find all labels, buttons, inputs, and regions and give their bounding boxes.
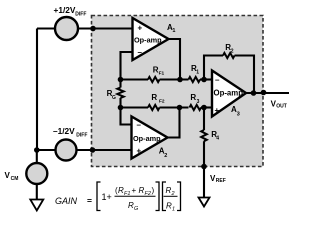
svg-text:G: G	[112, 95, 116, 101]
svg-text:–: –	[137, 121, 142, 130]
svg-text:Op-amp: Op-amp	[214, 89, 244, 98]
svg-text:2: 2	[164, 153, 167, 159]
svg-text:+: +	[137, 147, 142, 156]
svg-text:DIFF: DIFF	[75, 11, 86, 17]
svg-text:–1/2V: –1/2V	[53, 126, 75, 136]
svg-text:3: 3	[197, 99, 200, 105]
svg-text:R: R	[151, 93, 157, 102]
svg-text:+: +	[138, 24, 143, 33]
svg-text:–: –	[215, 76, 220, 85]
svg-text:1: 1	[196, 69, 199, 75]
svg-text:3: 3	[237, 112, 240, 118]
svg-text:2: 2	[231, 48, 234, 54]
svg-text:F2: F2	[159, 99, 165, 105]
svg-text:Op-amp: Op-amp	[134, 36, 162, 45]
svg-text:+: +	[215, 106, 220, 115]
svg-text:+: +	[132, 186, 137, 195]
svg-text:): )	[152, 186, 155, 195]
svg-text:1: 1	[172, 28, 175, 34]
svg-text:1: 1	[172, 207, 175, 213]
svg-text:1+: 1+	[102, 192, 112, 202]
svg-text:DIFF: DIFF	[76, 132, 87, 138]
svg-text:R: R	[190, 93, 196, 102]
svg-text:CM: CM	[11, 176, 19, 182]
svg-text:F1: F1	[159, 70, 165, 76]
svg-text:V: V	[5, 171, 11, 180]
svg-text:=: =	[87, 196, 92, 206]
svg-text:+1/2V: +1/2V	[54, 5, 76, 15]
svg-text:4: 4	[216, 136, 219, 142]
svg-text:OUT: OUT	[276, 104, 287, 110]
svg-text:REF: REF	[216, 178, 226, 184]
svg-text:–: –	[138, 48, 143, 57]
svg-text:GAIN: GAIN	[55, 196, 78, 206]
svg-text:G: G	[134, 206, 139, 212]
svg-text:Op-amp: Op-amp	[133, 134, 161, 143]
